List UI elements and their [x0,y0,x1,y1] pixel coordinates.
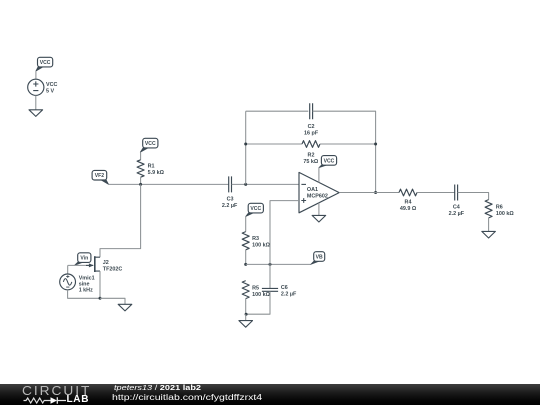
wire gate to mic [67,265,69,274]
junction dot feedback tap [244,183,247,186]
junction dot output/feedback [374,191,377,194]
svg-text:R5: R5 [252,285,259,291]
resistor R5 [242,281,249,299]
wire C4 to R6 [458,193,489,200]
VCC flag at R3 [246,212,255,217]
ground input stage [118,304,132,311]
VCC flag at op-amp [319,164,328,168]
wire R2 right [320,143,376,145]
wire C2 to right vertical [313,111,376,192]
svg-text:5.9 kΩ: 5.9 kΩ [148,170,165,176]
wire R6 to ground [488,218,490,232]
wire op-amp ground pin [318,203,320,216]
svg-text:49.9 Ω: 49.9 Ω [400,206,417,212]
voltage source V1 (VCC 5V) [28,79,44,95]
capacitor C3 [229,176,232,192]
junction dot plus-net/VB [269,263,272,266]
svg-text:100 kΩ: 100 kΩ [496,211,514,217]
svg-text:R6: R6 [496,205,503,211]
svg-text:2.2 µF: 2.2 µF [222,203,238,209]
resistor R6 [485,200,492,218]
svg-text:R1: R1 [148,163,155,169]
junction dot R1/main [139,183,142,186]
resistor R1 [137,160,144,177]
VCC supply label flag [36,66,44,71]
wire R3 to VB node [245,250,247,265]
node flag VB [311,260,320,264]
op-amp minus sign [301,183,306,185]
resistor R2 [302,141,320,148]
junction dot source/mic/gnd [99,297,102,300]
wire feedback left vertical [245,111,247,184]
svg-text:C2: C2 [308,124,315,130]
wire R5 to bottom [245,299,247,315]
node flag VF2 [100,179,108,185]
wire source down [99,271,101,298]
svg-text:R2: R2 [308,153,315,159]
svg-text:VF2: VF2 [95,173,105,179]
voltage source Vmic1 sine [60,274,76,290]
wire source to ground [35,95,37,109]
svg-text:2.2 µF: 2.2 µF [281,292,297,298]
transistor J2 TF202C [94,256,96,272]
footer text [112,384,412,405]
node flag Vin [75,261,85,265]
svg-text:VCC: VCC [250,206,261,212]
svg-text:VCC: VCC [46,82,57,88]
capacitor C4 [455,185,458,201]
wire op-amp plus down [270,201,299,289]
svg-text:C6: C6 [281,285,288,291]
resistor R4 [399,189,417,196]
wire flag to source V1 [35,71,37,79]
svg-text:VCC: VCC [324,158,335,164]
svg-text:TF202C: TF202C [103,266,123,272]
junction dot R2 left [244,143,247,146]
svg-text:R3: R3 [252,236,259,242]
wire R2 left [246,143,302,145]
capacitor C2 [310,103,313,119]
junction dot R3/R5/VB [244,263,247,266]
svg-text:C3: C3 [227,196,234,202]
svg-text:75 kΩ: 75 kΩ [303,159,318,165]
wire VCC flag to R3 [245,216,247,231]
ground below R6 [482,231,496,238]
junction dot bottom ground [245,313,248,316]
op-amp plus sign [301,198,306,203]
svg-text:VCC: VCC [145,141,156,147]
wire gate [68,264,86,266]
wire to divider ground [245,314,247,320]
ground below V1 [29,110,43,117]
resistor R3 [242,232,249,250]
svg-text:2.2 µF: 2.2 µF [449,211,465,217]
wire top to C2 [246,110,309,112]
wire VF2 to C3 (inverting input net) [109,183,229,185]
wire C6 to bottom [246,291,270,314]
wire C3 to op-amp minus [232,183,299,185]
svg-text:100 kΩ: 100 kΩ [252,242,270,248]
wire VCC flag to R1 [140,152,142,160]
svg-text:VCC: VCC [40,60,51,66]
wire op-amp output [339,192,399,194]
svg-text:16 pF: 16 pF [304,130,319,136]
wire to input ground [100,298,125,304]
wire R1 to main wire [140,177,142,184]
wire op-amp VCC pin [318,168,320,183]
svg-text:MCP602: MCP602 [307,194,328,200]
svg-text:VB: VB [316,254,323,260]
svg-text:C4: C4 [453,205,460,211]
svg-text:Vin: Vin [80,256,88,262]
wire VB horizontal [246,263,311,265]
svg-text:100 kΩ: 100 kΩ [252,292,270,298]
ground below divider [239,321,253,328]
wire mic to bottom [68,290,100,299]
svg-text:R4: R4 [405,200,412,206]
svg-text:1 kHz: 1 kHz [79,287,93,293]
junction dot R2 right [374,143,377,146]
wire R4 to C4 [417,192,455,194]
svg-text:5 V: 5 V [46,88,54,94]
VCC flag at R1 [140,147,149,153]
svg-text:J2: J2 [103,260,109,266]
ground below op-amp [312,215,326,222]
capacitor C6 [262,288,278,291]
op-amp OA1 triangle [299,172,339,212]
wire drain drop from main [100,184,141,257]
svg-text:OA1: OA1 [307,187,318,193]
CircuitLab logo [22,385,92,405]
